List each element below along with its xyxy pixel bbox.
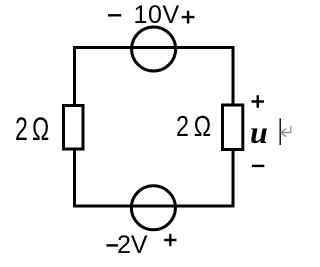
label minus of source V2	[107, 244, 119, 246]
line-break return arrow	[281, 126, 291, 137]
value label R1 (2 ohm)	[15, 113, 48, 145]
label plus of source V2	[164, 234, 176, 246]
resistor R1 (left 2 ohm)	[64, 106, 84, 150]
label minus of source V1	[108, 14, 121, 16]
polarity minus of u	[252, 165, 264, 167]
wire top	[73, 46, 235, 49]
label 2V of source V2	[117, 233, 148, 258]
text cursor caret	[279, 119, 281, 146]
wire left	[73, 46, 76, 208]
label value of source V1 (10V)	[134, 3, 180, 28]
voltage source V2 (2V)	[131, 186, 175, 230]
label plus of source V1	[182, 11, 195, 24]
voltage source V1 (10V)	[132, 27, 176, 71]
wire bottom	[73, 205, 235, 208]
value label R2 (2 ohm)	[176, 113, 210, 142]
polarity plus of u	[252, 95, 265, 108]
wire right	[232, 46, 235, 208]
resistor R2 (right 2 ohm)	[223, 105, 243, 150]
voltage u	[250, 116, 268, 148]
